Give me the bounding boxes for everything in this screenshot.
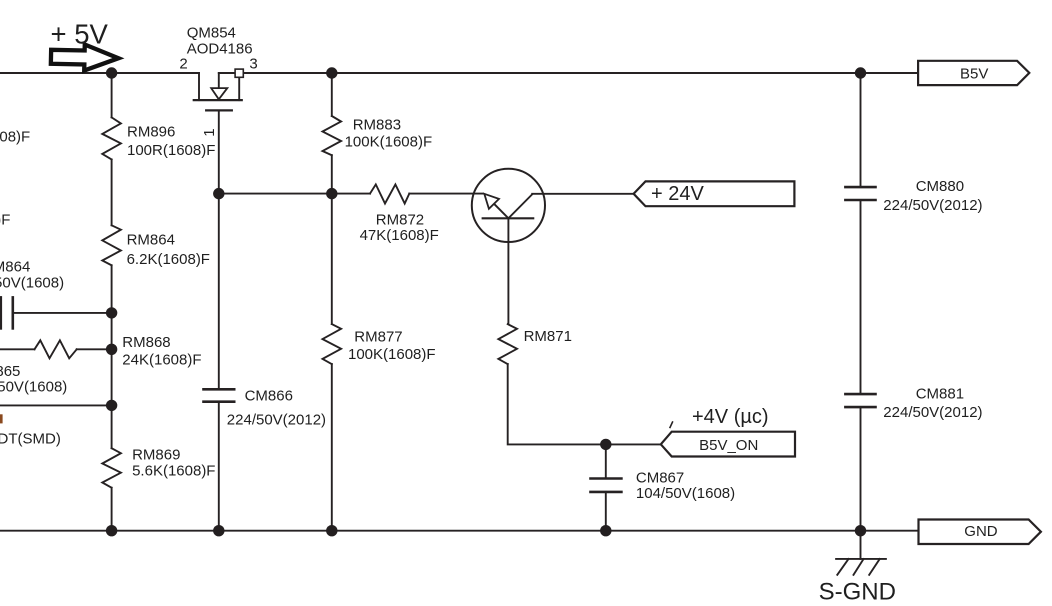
svg-text:5.6K(1608)F: 5.6K(1608)F: [132, 463, 215, 480]
svg-text:224/50V(2012): 224/50V(2012): [227, 412, 326, 429]
svg-text:RM864: RM864: [127, 232, 175, 249]
wire top rail left segment: [0, 72, 199, 74]
wire left column upper: [111, 73, 113, 117]
partial glyph sliver left edge: [0, 414, 3, 423]
svg-text:865: 865: [0, 363, 20, 380]
svg-text:CM880: CM880: [916, 178, 964, 195]
wire left column lower: [111, 488, 113, 531]
resistor RM864: [102, 225, 121, 265]
transistor QM854 arrow triangle: [211, 88, 227, 99]
capacitor CM867 plates: [591, 477, 622, 480]
wire node down to RM877: [331, 194, 333, 325]
resistor RM869: [102, 448, 121, 488]
capacitor CM880 upper lead: [860, 73, 862, 187]
capacitor CM864 left edge plates: [0, 297, 2, 328]
svg-text:24K(1608)F: 24K(1608)F: [122, 351, 201, 368]
svg-text:)F: )F: [0, 211, 10, 228]
svg-text:224/50V(2012): 224/50V(2012): [883, 197, 982, 214]
flag B5V: [918, 61, 1029, 85]
capacitor CM881 lower lead: [860, 407, 862, 531]
svg-text:B5V_ON: B5V_ON: [699, 437, 758, 454]
transistor QM854 body vertical: [218, 73, 220, 88]
node dot gate line: [213, 188, 224, 199]
svg-text:+4V (µc): +4V (µc): [692, 406, 769, 428]
transistor emitter arrow: [484, 194, 499, 209]
node dot top rail x=331.8: [326, 67, 337, 78]
node dot RM868: [106, 344, 117, 355]
svg-text:CM881: CM881: [916, 385, 964, 402]
wire top rail right segment: [219, 72, 918, 74]
resistor RM883: [323, 116, 342, 155]
svg-text:3: 3: [249, 56, 257, 73]
transistor Q circle: [472, 169, 545, 242]
node dot left cap: [106, 307, 117, 318]
capacitor CM867 upper lead: [605, 444, 607, 478]
wire node line y=193.6: [219, 193, 370, 195]
svg-text:47K(1608)F: 47K(1608)F: [360, 227, 439, 244]
flag B5V_ON: [661, 432, 795, 457]
transistor QM854 pin3 square: [235, 69, 243, 77]
wire RM872 to transistor: [409, 193, 482, 195]
svg-text:08)F: 08)F: [0, 128, 30, 145]
capacitor CM866 upper lead: [218, 194, 220, 390]
svg-text:100K(1608)F: 100K(1608)F: [345, 134, 433, 151]
wire RM883 to node: [331, 155, 333, 193]
node dot top rail x=860.5: [855, 67, 866, 78]
svg-text:104/50V(1608): 104/50V(1608): [636, 485, 735, 502]
svg-text:M864: M864: [0, 258, 30, 275]
flag GND: [919, 520, 1041, 545]
node dot bottom rail x=218.8: [213, 525, 224, 536]
svg-text:CM867: CM867: [636, 469, 684, 486]
capacitor CM880 plates: [845, 186, 875, 189]
node dot bottom rail x=605.8: [600, 525, 611, 536]
svg-text:50V(1608): 50V(1608): [0, 275, 64, 292]
svg-text:RM871: RM871: [524, 328, 572, 345]
+5V block arrow: [51, 44, 119, 71]
tick above B5V_ON flag: [670, 422, 673, 428]
node dot RM883 line: [326, 188, 337, 199]
svg-text:DT(SMD): DT(SMD): [0, 431, 61, 448]
resistor RM871: [498, 324, 517, 364]
svg-text:CM866: CM866: [245, 388, 293, 405]
svg-text:AOD4186: AOD4186: [187, 41, 253, 58]
wire transistor to +24V flag: [532, 193, 633, 195]
svg-text:RM896: RM896: [127, 123, 175, 140]
flag +24V: [634, 181, 795, 206]
transistor emitter diagonal: [494, 204, 508, 218]
node dot top rail x=111.6: [106, 67, 117, 78]
node dot B5V_ON line: [600, 439, 611, 450]
svg-text:+ 5V: + 5V: [51, 19, 109, 50]
wire transistor base down: [507, 218, 509, 324]
wire from left capacitor to node: [13, 312, 112, 314]
transistor QM854 gate bar: [206, 109, 232, 111]
ground S-GND symbol: [860, 531, 862, 559]
svg-text:100K(1608)F: 100K(1608)F: [348, 346, 436, 363]
svg-text:B5V: B5V: [960, 66, 988, 83]
capacitor CM866 lower lead: [218, 402, 220, 531]
wire left column between RM896 and RM864: [111, 159, 113, 225]
svg-text:224/50V(2012): 224/50V(2012): [883, 404, 982, 421]
resistor RM877: [323, 324, 342, 364]
resistor RM868: [35, 340, 77, 358]
svg-text:50V(1608): 50V(1608): [0, 379, 67, 396]
svg-text:RM872: RM872: [376, 211, 424, 228]
transistor base bar: [483, 217, 534, 219]
svg-text:100R(1608)F: 100R(1608)F: [127, 142, 215, 159]
wire RM877 to bottom rail: [331, 364, 333, 531]
wire RM868 left stub: [0, 348, 35, 350]
capacitor CM866 plates: [204, 388, 235, 391]
wire CM880 to CM881: [860, 200, 862, 394]
resistor RM872: [370, 184, 409, 203]
capacitor CM881 plates: [845, 393, 875, 396]
svg-text:6.2K(1608)F: 6.2K(1608)F: [127, 251, 210, 268]
wire bottom rail: [0, 530, 919, 532]
svg-text:RM869: RM869: [132, 446, 180, 463]
svg-text:2: 2: [179, 56, 187, 73]
svg-text:RM877: RM877: [354, 328, 402, 345]
node dot bottom rail x=860.5: [855, 525, 866, 536]
wire RM871 down and right: [508, 364, 661, 444]
wire left column between RM864 and RM869: [111, 265, 113, 448]
node dot bottom rail x=331.8: [326, 525, 337, 536]
svg-text:1: 1: [201, 128, 218, 136]
transistor QM854 pin3 lead: [238, 73, 240, 100]
node dot bottom rail x=111.6: [106, 525, 117, 536]
svg-text:RM868: RM868: [122, 334, 170, 351]
svg-text:QM854: QM854: [187, 24, 236, 41]
svg-text:+ 24V: + 24V: [651, 183, 704, 205]
wire RM868 to node: [77, 348, 112, 350]
wire gate lead down: [218, 110, 220, 193]
resistor RM883 upper wire: [331, 73, 333, 116]
svg-text:S-GND: S-GND: [819, 579, 896, 606]
transistor collector diagonal: [508, 194, 532, 218]
transistor QM854 channel bar: [194, 99, 242, 101]
node dot left stub: [106, 400, 117, 411]
capacitor CM867 lower lead: [605, 492, 607, 531]
svg-text:RM883: RM883: [353, 117, 401, 134]
svg-text:GND: GND: [964, 523, 998, 540]
transistor QM854 pin2 lead: [198, 73, 200, 100]
wire left stub to node: [0, 404, 112, 406]
resistor RM896: [102, 117, 121, 159]
